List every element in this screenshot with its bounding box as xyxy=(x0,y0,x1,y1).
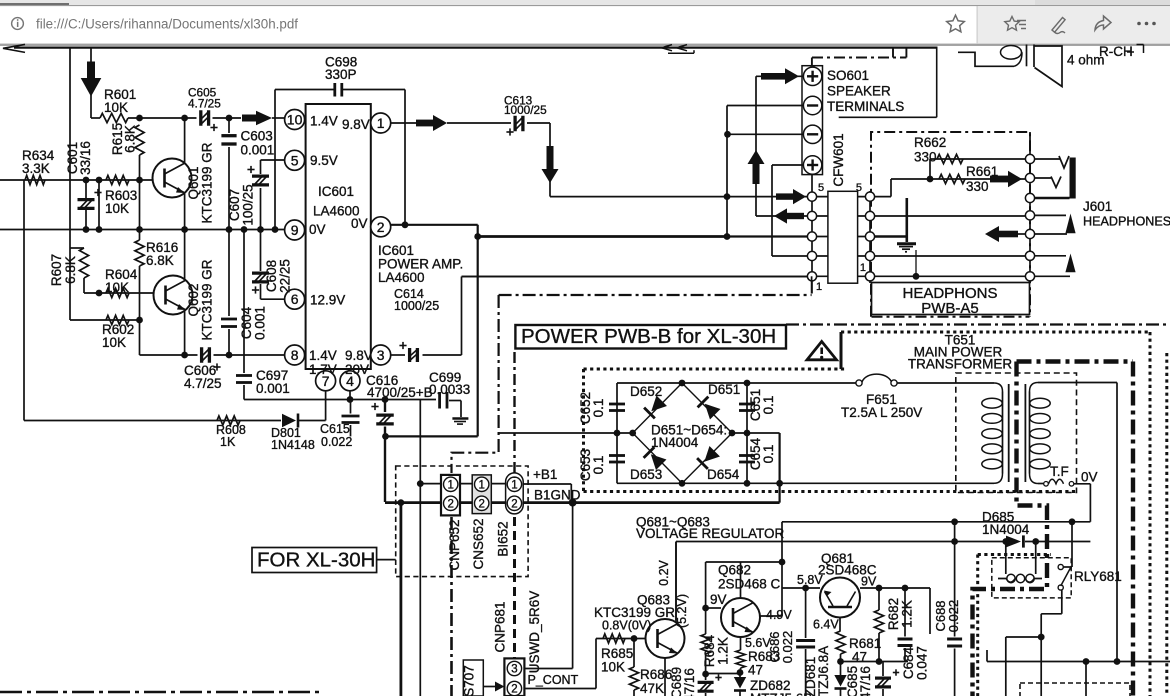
svg-text:1000/25: 1000/25 xyxy=(504,103,547,117)
svg-text:0.1: 0.1 xyxy=(591,456,606,475)
svg-text:1.4V: 1.4V xyxy=(309,348,337,363)
svg-text:SPEAKER: SPEAKER xyxy=(827,84,891,99)
svg-text:0.001: 0.001 xyxy=(253,306,268,340)
svg-text:6.8K: 6.8K xyxy=(63,256,78,284)
svg-text:10K: 10K xyxy=(601,660,625,675)
svg-text:FOR XL-30H: FOR XL-30H xyxy=(257,549,375,572)
svg-text:IC601: IC601 xyxy=(318,184,354,199)
svg-text:R661: R661 xyxy=(966,164,998,179)
svg-text:330: 330 xyxy=(966,179,989,194)
svg-text:0V: 0V xyxy=(1081,470,1098,485)
svg-text:47/16: 47/16 xyxy=(682,668,697,696)
svg-text:0.022: 0.022 xyxy=(946,600,961,633)
svg-text:T.F: T.F xyxy=(1050,464,1069,479)
svg-text:10K: 10K xyxy=(105,280,129,295)
svg-text:1: 1 xyxy=(816,281,822,293)
svg-text:0.2V: 0.2V xyxy=(657,559,671,585)
svg-text:0V: 0V xyxy=(309,222,326,237)
svg-text:P_CONT: P_CONT xyxy=(528,673,579,687)
svg-text:CNP681: CNP681 xyxy=(493,601,508,652)
svg-text:TERMINALS: TERMINALS xyxy=(827,99,904,114)
svg-text:1: 1 xyxy=(377,115,385,131)
svg-text:0.001: 0.001 xyxy=(256,381,290,396)
svg-text:9.8V: 9.8V xyxy=(345,348,373,363)
svg-text:+B1: +B1 xyxy=(533,467,557,482)
svg-text:0V: 0V xyxy=(351,216,368,231)
svg-text:5: 5 xyxy=(818,182,824,194)
svg-text:1K: 1K xyxy=(220,435,236,449)
svg-text:2SD468 C: 2SD468 C xyxy=(718,577,781,592)
svg-text:HEADPHONES: HEADPHONES xyxy=(1083,215,1170,229)
svg-text:5.8V: 5.8V xyxy=(797,573,823,587)
svg-text:0.8V(0V): 0.8V(0V) xyxy=(602,619,651,633)
svg-text:MTZJ6.8A: MTZJ6.8A xyxy=(816,646,831,696)
svg-text:Q682: Q682 xyxy=(718,563,751,578)
svg-text:47/16: 47/16 xyxy=(858,666,873,696)
svg-text:6.8K: 6.8K xyxy=(123,125,138,153)
svg-text:file:///C:/Users/rihanna/Docum: file:///C:/Users/rihanna/Documents/xl30h… xyxy=(36,17,298,32)
svg-text:33/16: 33/16 xyxy=(78,141,93,175)
svg-text:D653: D653 xyxy=(630,467,662,482)
svg-text:1.2K: 1.2K xyxy=(716,637,731,665)
svg-text:10K: 10K xyxy=(104,100,128,115)
svg-text:3.3K: 3.3K xyxy=(22,161,50,176)
svg-text:2: 2 xyxy=(377,219,385,235)
svg-text:2: 2 xyxy=(447,498,453,510)
svg-text:9: 9 xyxy=(291,222,299,238)
svg-text:SO601: SO601 xyxy=(827,68,869,83)
svg-text:USWD_5R6V: USWD_5R6V xyxy=(527,591,542,674)
svg-text:D651: D651 xyxy=(708,382,740,397)
svg-text:1N4004: 1N4004 xyxy=(982,522,1030,537)
svg-text:D652: D652 xyxy=(630,384,662,399)
svg-text:1.7V: 1.7V xyxy=(309,362,337,377)
svg-text:1N4004: 1N4004 xyxy=(651,435,699,450)
svg-text:1.2K: 1.2K xyxy=(900,600,915,628)
svg-text:R662: R662 xyxy=(914,135,946,150)
svg-text:10: 10 xyxy=(287,112,303,128)
svg-text:0.001: 0.001 xyxy=(241,143,275,158)
svg-text:CNP652: CNP652 xyxy=(447,519,462,570)
svg-text:100/25: 100/25 xyxy=(241,184,256,225)
svg-text:6.8K: 6.8K xyxy=(146,253,174,268)
svg-text:S707: S707 xyxy=(461,665,476,696)
svg-text:0.1: 0.1 xyxy=(591,399,606,418)
svg-text:12.9V: 12.9V xyxy=(310,293,345,308)
svg-text:3: 3 xyxy=(377,347,385,363)
svg-text:CNS652: CNS652 xyxy=(471,518,486,569)
svg-text:9.5V: 9.5V xyxy=(310,153,338,168)
svg-text:2: 2 xyxy=(478,498,484,510)
svg-text:T2.5A L 250V: T2.5A L 250V xyxy=(841,405,922,420)
svg-text:0.1: 0.1 xyxy=(761,396,776,415)
svg-text:1: 1 xyxy=(860,262,866,274)
svg-text:330: 330 xyxy=(914,150,937,165)
svg-text:4.7/25: 4.7/25 xyxy=(188,97,221,111)
svg-text:RLY681: RLY681 xyxy=(1074,569,1122,584)
svg-text:0.022: 0.022 xyxy=(321,435,352,449)
svg-text:LA4600: LA4600 xyxy=(378,270,425,285)
svg-text:C603: C603 xyxy=(241,129,273,144)
svg-text:BI652: BI652 xyxy=(496,521,511,556)
svg-text:TRANSFORMER: TRANSFORMER xyxy=(908,357,1013,372)
svg-text:9.8V: 9.8V xyxy=(342,117,370,132)
svg-text:4.7/25: 4.7/25 xyxy=(184,376,222,391)
svg-text:4.9V: 4.9V xyxy=(766,608,792,622)
svg-text:47: 47 xyxy=(748,663,763,678)
svg-text:C615: C615 xyxy=(320,422,350,436)
svg-text:1N4148: 1N4148 xyxy=(271,438,315,452)
svg-text:5: 5 xyxy=(856,182,862,194)
svg-text:R607: R607 xyxy=(49,254,64,286)
svg-text:0.022: 0.022 xyxy=(780,631,795,664)
svg-text:PWB-A5: PWB-A5 xyxy=(921,300,979,317)
svg-text:1000/25: 1000/25 xyxy=(394,299,439,313)
svg-text:10K: 10K xyxy=(102,335,126,350)
svg-text:KTC3199 GR: KTC3199 GR xyxy=(200,142,215,223)
svg-text:4700/25+B: 4700/25+B xyxy=(367,385,433,400)
svg-text:B1GND: B1GND xyxy=(534,488,581,503)
svg-text:9V: 9V xyxy=(861,575,877,589)
svg-text:6.4V: 6.4V xyxy=(813,618,839,632)
svg-text:22/25: 22/25 xyxy=(278,259,293,293)
svg-text:9V: 9V xyxy=(710,592,727,607)
svg-text:0.1: 0.1 xyxy=(761,445,776,464)
svg-text:0.047: 0.047 xyxy=(915,646,930,680)
svg-text:1: 1 xyxy=(511,479,517,491)
svg-text:1.4V: 1.4V xyxy=(310,114,338,129)
svg-text:KTC3199 GR: KTC3199 GR xyxy=(200,259,215,340)
svg-text:1: 1 xyxy=(478,479,484,491)
svg-text:2: 2 xyxy=(511,498,517,510)
svg-text:(5.2V): (5.2V) xyxy=(675,594,689,628)
svg-text:R686: R686 xyxy=(640,667,672,682)
svg-text:330P: 330P xyxy=(325,67,357,82)
svg-text:5: 5 xyxy=(291,152,299,168)
svg-text:8: 8 xyxy=(291,347,299,363)
svg-text:2: 2 xyxy=(511,684,517,696)
svg-text:3: 3 xyxy=(511,664,517,676)
svg-text:CFW601: CFW601 xyxy=(831,133,846,186)
svg-text:10K: 10K xyxy=(105,201,129,216)
svg-text:47K: 47K xyxy=(640,681,664,696)
svg-text:POWER PWB-B for XL-30H: POWER PWB-B for XL-30H xyxy=(521,325,776,348)
svg-text:J601: J601 xyxy=(1083,199,1112,214)
svg-text:VOLTAGE REGULATOR: VOLTAGE REGULATOR xyxy=(636,526,785,541)
svg-text:D654: D654 xyxy=(707,467,740,482)
svg-text:1: 1 xyxy=(447,479,453,491)
svg-text:0.0033: 0.0033 xyxy=(429,382,470,397)
